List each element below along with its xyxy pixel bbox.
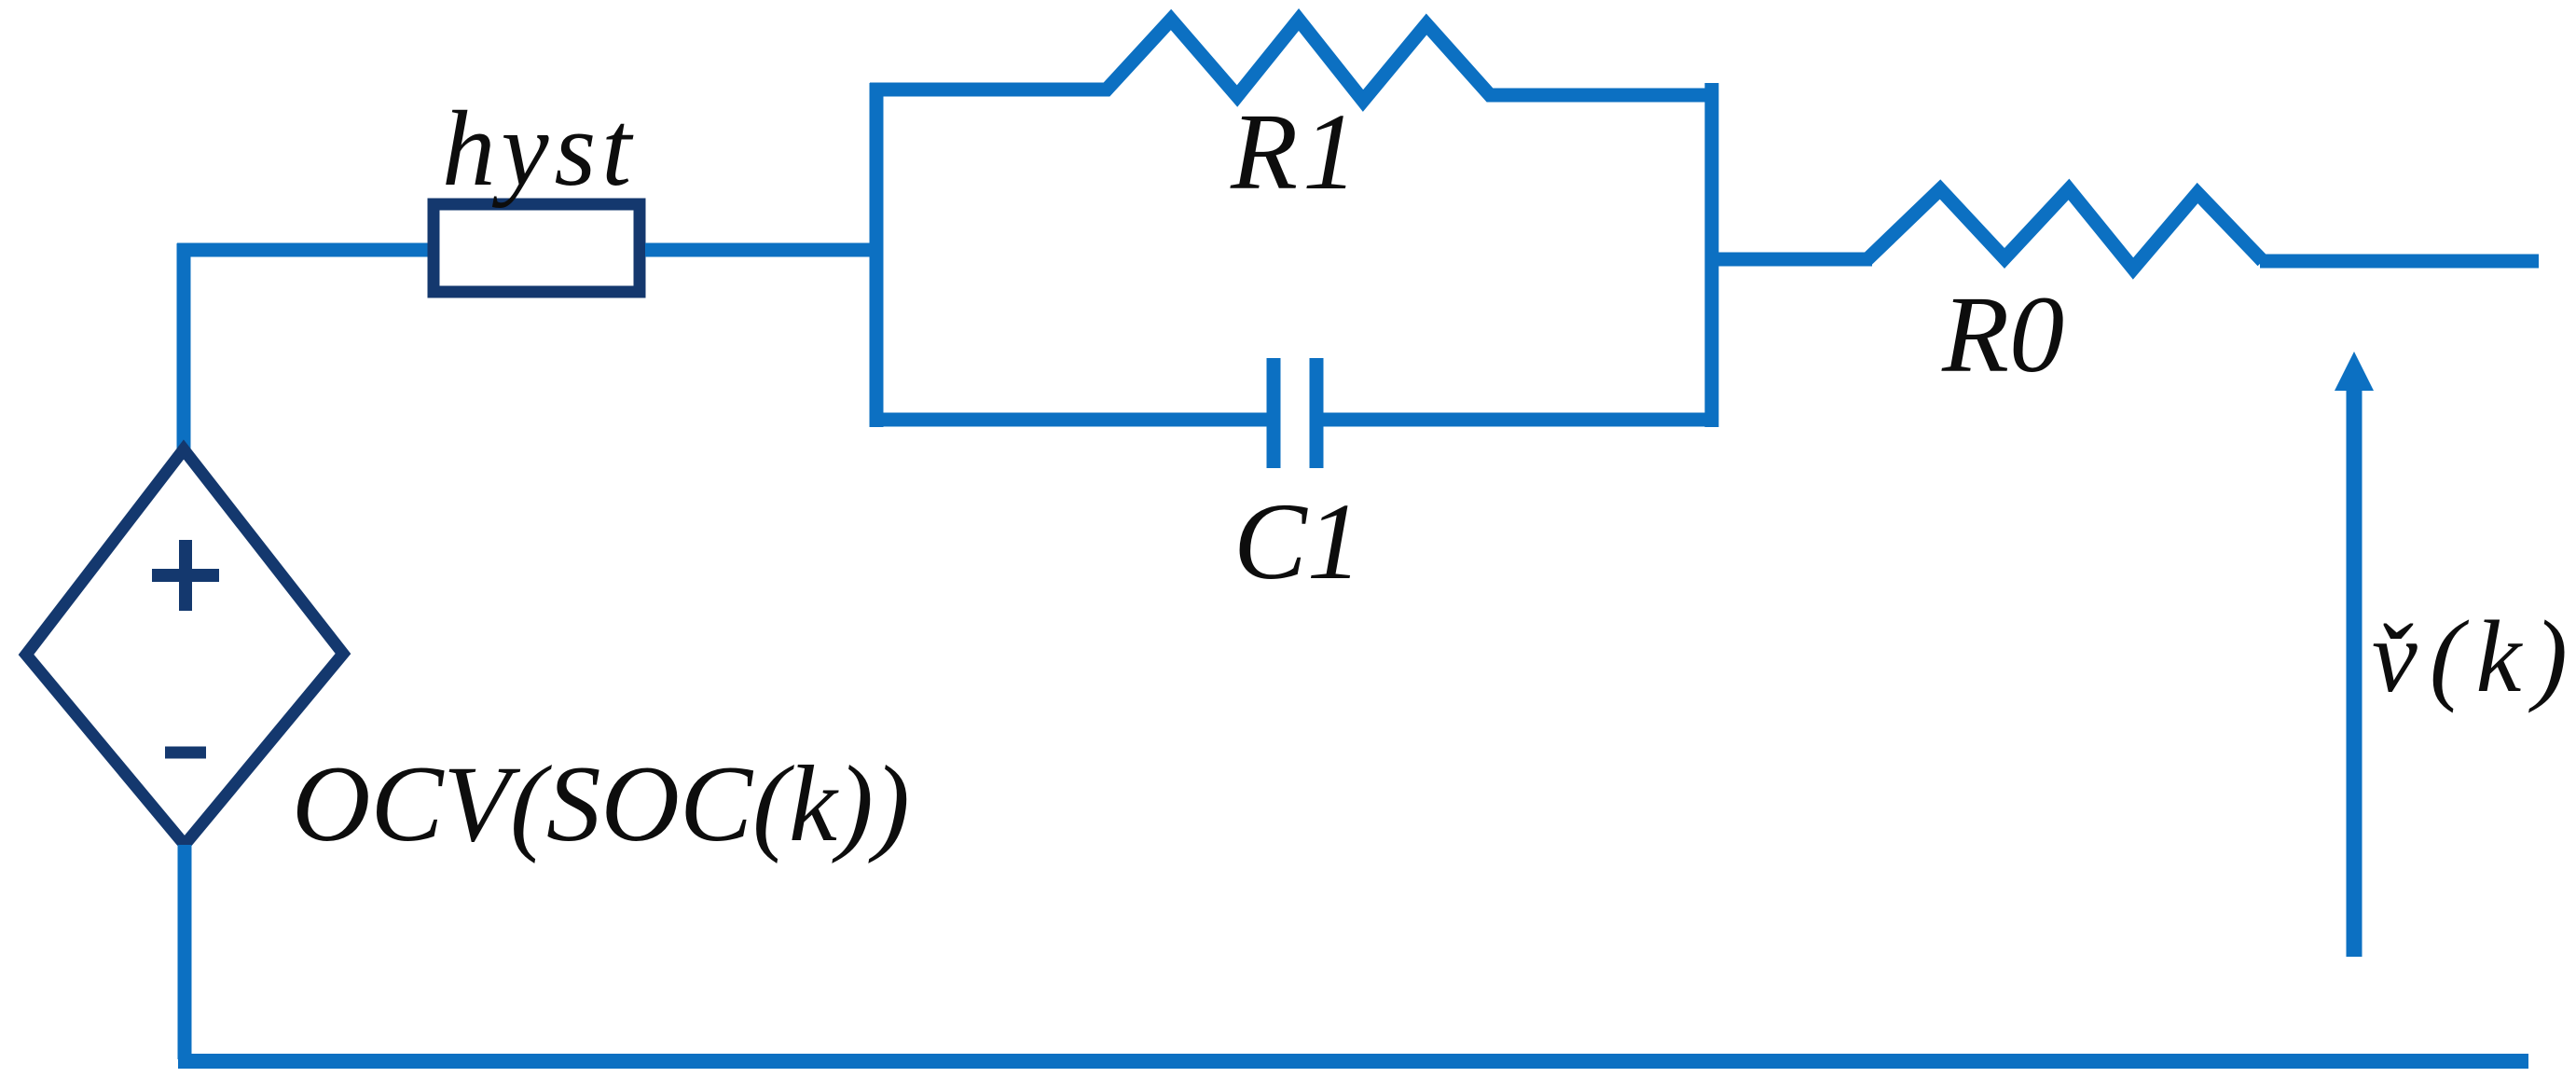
hysteresis element hyst box — [434, 204, 640, 292]
wire diamond bottom — [178, 845, 192, 1059]
resistor R0 — [1867, 189, 2263, 269]
wire R0 to output — [2260, 255, 2539, 269]
svg-text:OCV(SOC(k)): OCV(SOC(k)) — [292, 744, 910, 864]
svg-text:R1: R1 — [1230, 90, 1362, 213]
arrow v(k) head — [2335, 352, 2374, 391]
wire top-left horizontal — [177, 243, 428, 257]
wire left vertical — [177, 243, 191, 449]
arrow v(k) shaft — [2347, 384, 2362, 957]
wire hyst to RC block — [645, 243, 876, 257]
resistor R1 top branch — [870, 20, 1718, 101]
wire RC block to R0 — [1712, 253, 1872, 267]
RC block right vertical wire — [1705, 83, 1719, 427]
minus sign — [165, 747, 206, 759]
svg-text:hyst: hyst — [442, 90, 637, 208]
svg-text:C1: C1 — [1233, 480, 1362, 602]
RC block left vertical wire — [870, 83, 884, 427]
svg-text:R0: R0 — [1941, 273, 2064, 395]
wire bottom horizontal — [178, 1054, 2528, 1069]
plus sign — [152, 540, 219, 611]
dependent source U1 diamond OCV — [26, 449, 343, 845]
capacitor C1 left plate — [1267, 358, 1281, 468]
capacitor C1 bottom branch right wire — [1316, 413, 1718, 427]
capacitor C1 right plate — [1310, 358, 1324, 468]
capacitor C1 bottom branch left wire — [870, 413, 1274, 427]
svg-text:v̌(k): v̌(k) — [2372, 600, 2576, 713]
